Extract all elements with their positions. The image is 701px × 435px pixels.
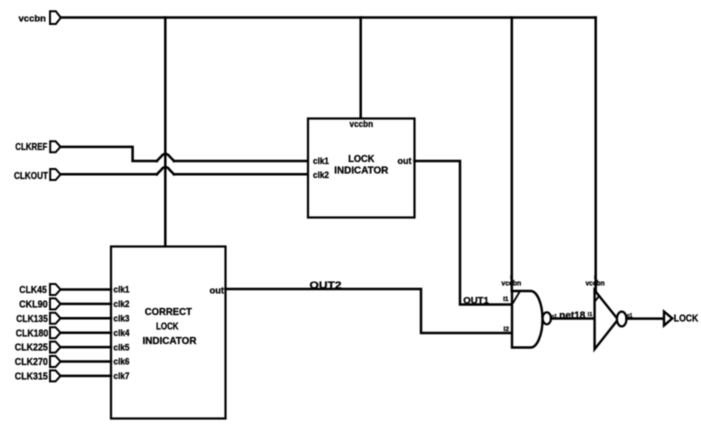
block U1 LOCK INDICATOR [308,119,415,218]
wire CLKOUT to clk2 (hops over vccbn drop) [61,167,309,174]
input pin CLK45 [19,284,60,296]
wire net18 (NAND output to inverter input) [551,310,595,321]
svg-text:vccbn: vccbn [501,278,521,287]
block U2 CORRECT LOCK INDICATOR [111,247,226,419]
svg-text:CLKREF: CLKREF [15,142,47,153]
svg-text:clk3: clk3 [114,314,130,324]
svg-text:CKL90: CKL90 [19,300,48,311]
svg-text:CLK270: CLK270 [15,357,48,368]
svg-text:I1: I1 [503,297,509,303]
wire OUT1 (LOCK INDICATOR out to NAND I1) [415,161,512,306]
inverter U4 [595,290,633,349]
wire CLK180 to clk4 [61,331,112,334]
svg-text:net18: net18 [559,310,585,321]
svg-text:LOCK: LOCK [348,154,375,165]
wire CLKREF to clk1 (hops over vccbn drop) [61,147,309,161]
svg-text:CLK180: CLK180 [16,328,49,339]
svg-text:INDICATOR: INDICATOR [143,336,198,347]
svg-text:CORRECT: CORRECT [145,307,193,318]
svg-text:clk7: clk7 [114,371,130,381]
svg-text:clk1: clk1 [313,156,329,166]
svg-text:CLK225: CLK225 [15,343,48,354]
svg-text:OUT2: OUT2 [310,281,343,292]
svg-text:LOCK: LOCK [156,322,179,333]
svg-text:LOCK: LOCK [674,314,699,325]
svg-text:CLK135: CLK135 [16,314,48,325]
svg-text:clk6: clk6 [114,357,130,367]
input pin CLK135 [16,313,60,325]
svg-text:CLK45: CLK45 [19,285,47,296]
wire CLK315 to clk7 [61,375,112,378]
svg-text:vccbn: vccbn [350,119,374,129]
svg-text:vccbn: vccbn [19,13,47,24]
wire CLK45 to clk1 [61,288,112,291]
wire OUT2 (CORRECT LOCK INDICATOR out to NAND I2) [226,281,512,333]
input pin CKL90 [19,298,60,310]
svg-text:clk5: clk5 [114,342,130,352]
wire CLK225 to clk5 [61,346,112,349]
wire vccbn drop to NAND gate [501,18,521,292]
input pin CLK180 [16,327,61,339]
output pin LOCK [664,312,698,326]
svg-text:i1: i1 [588,312,593,318]
wire vccbn drop to CORRECT LOCK INDICATOR [164,18,167,247]
input pin CLK315 [15,370,61,382]
svg-text:clk4: clk4 [114,328,130,338]
wire vccbn drop to inverter [585,18,605,291]
input pin CLK225 [15,342,61,354]
wire CKL90 to clk2 [61,303,112,306]
svg-text:vccbn: vccbn [585,279,605,288]
svg-text:CLK315: CLK315 [15,372,48,383]
input pin CLK270 [15,356,61,368]
svg-text:CLKOUT: CLKOUT [14,171,49,182]
svg-text:clk1: clk1 [114,285,130,295]
wire vccbn top rail [61,16,596,19]
input pin CLKOUT [14,169,61,182]
svg-text:out: out [398,156,412,166]
wire CLK135 to clk3 [61,317,112,320]
wire inverter output to LOCK pin [627,317,664,320]
wire CLK270 to clk6 [61,360,112,363]
svg-text:out: out [210,285,225,295]
svg-text:I2: I2 [504,327,510,333]
input pin CLKREF [15,141,60,153]
svg-text:clk2: clk2 [313,170,329,180]
svg-text:OUT1: OUT1 [463,295,489,306]
wire vccbn drop to LOCK INDICATOR [359,18,362,119]
input pin vccbn [19,11,61,24]
nand gate U3 [503,291,557,348]
svg-text:INDICATOR: INDICATOR [334,165,389,176]
svg-text:clk2: clk2 [114,299,130,309]
